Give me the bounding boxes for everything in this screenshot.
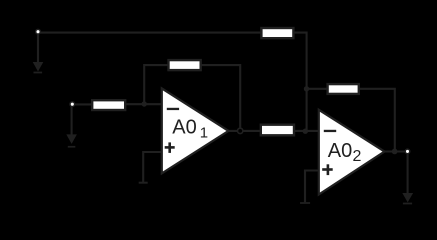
junction (A01 inverting input node) — [142, 101, 147, 106]
wire: A02 output run to terminal — [383, 150, 406, 152]
minus marking (A02 inverting input) — [324, 130, 336, 132]
junction (A02 output node) — [392, 149, 398, 155]
wire: output terminal down to ground — [407, 154, 409, 194]
node IN1 (top-left input terminal) — [36, 29, 41, 34]
ground (below OUT): arrow + bar — [402, 193, 413, 204]
wire: R1 to A01 inverting junction and minus input — [125, 103, 163, 105]
svg-text:A0: A0 — [172, 116, 196, 138]
ground bar (A01 plus input) — [139, 182, 148, 184]
junction ring (A01 output node) — [238, 128, 243, 133]
wire: R5 to A02 output (right corner riser) — [359, 89, 395, 152]
wire: R2 to A01 output (down corner riser) — [201, 65, 241, 131]
resistor R2 (A01 feedback) — [169, 60, 201, 70]
wire: A02 plus input to ground — [305, 171, 319, 203]
wire: input node IN2 to R1 — [72, 103, 94, 105]
svg-text:2: 2 — [353, 148, 362, 165]
resistor R5 (A02 feedback) — [328, 84, 359, 94]
ground (below IN1): arrow + bar — [33, 62, 44, 73]
node IN2 (left input terminal) — [70, 102, 75, 107]
resistor R3 (top, IN1 to A02 inverting node) — [261, 28, 293, 38]
plus marking (A01 non-inverting input) — [165, 146, 175, 149]
op-amp A02 — [319, 110, 385, 195]
wire: A01 plus input to ground — [143, 152, 162, 182]
junction (feedback tap on riser) — [304, 86, 309, 91]
ground bar (A02 plus input) — [300, 202, 310, 204]
wire: R3 to summing riser (down to A02 inverting node) — [294, 33, 307, 131]
wire: feedback branch from riser to R5 — [307, 88, 328, 90]
wire: A01 feedback riser up and across to R2 — [144, 65, 169, 104]
resistor R4 (A01 output to A02 inverting node) — [261, 125, 294, 136]
plus marking (A02 non-inverting input) — [322, 168, 333, 171]
wire: IN1 down to ground — [37, 34, 39, 63]
svg-text:A0: A0 — [328, 140, 352, 162]
svg-text:1: 1 — [200, 124, 208, 141]
wire: A01 output run to R4 — [228, 130, 262, 132]
wire: R4 to A02 inverting input — [294, 130, 320, 132]
minus marking (A01 inverting input) — [167, 108, 179, 110]
node OUT (output terminal) — [405, 149, 410, 154]
resistor R1 (input, IN2 to A01 inverting input) — [92, 100, 125, 110]
wire: IN2 down to ground — [71, 107, 73, 136]
wire: top run from input node to R3 — [38, 32, 262, 34]
op-amp A01 — [162, 88, 229, 173]
junction (A02 inverting input node) — [303, 129, 308, 134]
ground (below IN2): arrow + bar — [66, 134, 77, 147]
